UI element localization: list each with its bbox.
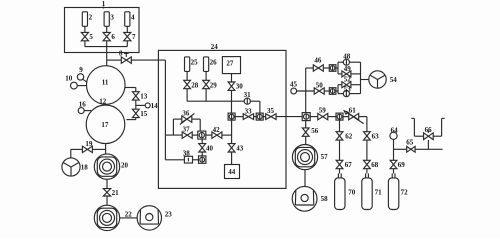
filter 60 bbox=[336, 113, 343, 120]
valve 33 bbox=[243, 114, 248, 120]
valve 8 with stem bbox=[121, 57, 126, 63]
wire filter 60 to valve 61 bbox=[343, 116, 349, 118]
vessel 54 (ball) bbox=[369, 71, 386, 88]
wire valve 50 to filter 51 bbox=[324, 90, 329, 92]
svg-text:71: 71 bbox=[375, 188, 383, 196]
wire filter 47 tee bbox=[336, 62, 338, 74]
wire valve 68 to cylinder 71 bbox=[366, 169, 368, 174]
wire valve 8 into box 24 bbox=[131, 60, 165, 135]
svg-text:36: 36 bbox=[182, 109, 190, 117]
wire tank 27 to valve 30 bbox=[231, 74, 233, 82]
valve 68 bbox=[364, 160, 371, 164]
svg-text:72: 72 bbox=[401, 188, 409, 196]
svg-text:22: 22 bbox=[125, 211, 133, 219]
valve 13 bbox=[132, 92, 139, 96]
bypass wire valve 36 to filter 41 bbox=[192, 119, 200, 131]
valve 62 bbox=[336, 132, 343, 136]
wire valve 30 down to filter 32 bbox=[231, 90, 233, 113]
wire tank 17 down to pump 20 bbox=[105, 144, 107, 154]
gauge 31 bbox=[244, 98, 250, 104]
cylinder 26 bbox=[204, 57, 209, 72]
enclosure box 1 (gas supply cabinet) bbox=[65, 8, 140, 53]
wire branch to gauge 48 bbox=[338, 61, 343, 63]
svg-text:27: 27 bbox=[226, 60, 234, 68]
box 44 bbox=[225, 165, 240, 179]
svg-text:50: 50 bbox=[316, 81, 324, 89]
svg-text:14: 14 bbox=[151, 102, 159, 110]
valve 19 bbox=[82, 146, 87, 152]
svg-text:70: 70 bbox=[348, 188, 356, 196]
filter 55 bbox=[302, 113, 310, 121]
svg-text:35: 35 bbox=[267, 107, 275, 115]
valve 50 bbox=[314, 88, 319, 94]
valve 65 bbox=[407, 146, 411, 152]
svg-text:9: 9 bbox=[79, 66, 83, 74]
wire filter 34 to valve 35 bbox=[263, 116, 266, 118]
wire gauge 45 to valve 50 bbox=[297, 90, 315, 92]
wire valve 56 to pump 57 bbox=[305, 136, 307, 144]
manifold wire valves 28/29 to node bbox=[187, 89, 244, 102]
wire valve 59 to filter 60 bbox=[328, 116, 336, 118]
cylinder 2 bbox=[82, 12, 87, 26]
wire pump 57 to pump 58 bbox=[304, 170, 306, 187]
svg-text:63: 63 bbox=[372, 132, 380, 140]
funnel vessel above valve 66 bbox=[413, 118, 415, 136]
riser wire from filter 55 to valve 46 line bbox=[306, 68, 314, 113]
valve 21 bbox=[103, 189, 110, 193]
wire stub to gauge 14 bbox=[136, 104, 146, 106]
wire pump 20 to valve 21 bbox=[106, 179, 108, 188]
wire cylinder 25 to valve 28 bbox=[186, 71, 188, 80]
svg-text:53: 53 bbox=[344, 85, 352, 93]
bypass wire to valve 36 bbox=[173, 119, 181, 135]
wire valve 21 to pump 22 bbox=[106, 196, 108, 205]
svg-text:29: 29 bbox=[210, 81, 218, 89]
valve 29 bbox=[203, 80, 210, 84]
svg-text:68: 68 bbox=[371, 161, 379, 169]
svg-text:37: 37 bbox=[183, 126, 191, 134]
svg-text:58: 58 bbox=[321, 195, 329, 203]
valve 52 bbox=[342, 82, 347, 88]
wire valve 61 elbow down bbox=[359, 117, 367, 132]
valve 42 bbox=[212, 132, 217, 138]
svg-text:57: 57 bbox=[321, 153, 329, 161]
svg-text:15: 15 bbox=[140, 110, 148, 118]
svg-text:17: 17 bbox=[101, 121, 109, 129]
wire filter 55 down to valve 56 bbox=[305, 121, 307, 128]
wire down to filter 38 bbox=[165, 135, 184, 160]
main drop wire from box 1 to tank 11 bbox=[106, 41, 108, 66]
wire valve 52 to manifold bbox=[351, 84, 361, 86]
wire filter 55 to valve 59 bbox=[310, 116, 317, 118]
wire gauge 9 to tank 11 bbox=[83, 79, 88, 82]
wire gauge 48 to manifold bbox=[350, 61, 361, 63]
wire branch to valve 62 bbox=[339, 119, 341, 132]
wire valve 33 to filter 34 bbox=[254, 116, 257, 118]
valve 5 bbox=[81, 32, 88, 36]
pump 23 bbox=[137, 206, 161, 230]
wire filter 51 tee bbox=[336, 85, 338, 94]
wire gauge 16 to tank 17 bbox=[84, 110, 91, 112]
valve 69 bbox=[390, 160, 397, 164]
svg-text:69: 69 bbox=[398, 161, 406, 169]
svg-text:20: 20 bbox=[121, 162, 129, 170]
svg-text:4: 4 bbox=[131, 14, 135, 22]
vessel 18 (ball) bbox=[62, 158, 80, 176]
valve 46 bbox=[313, 65, 318, 71]
valve 59 bbox=[318, 113, 323, 119]
valve 56 bbox=[302, 128, 309, 132]
wire branch to valve 49 bbox=[338, 73, 342, 75]
svg-text:16: 16 bbox=[79, 101, 87, 109]
filter 51 bbox=[329, 88, 336, 95]
svg-text:59: 59 bbox=[319, 107, 327, 115]
svg-text:13: 13 bbox=[140, 92, 148, 100]
wire gauge 53 to manifold bbox=[350, 93, 361, 95]
wire valve 49 to manifold bbox=[351, 73, 361, 75]
wire valve 62 to valve 67 bbox=[339, 140, 341, 160]
wire cylinder 4 to valve 7 bbox=[126, 26, 128, 32]
wire gauge 31 to filter 34 bbox=[250, 101, 260, 113]
gauge 9 bbox=[77, 74, 83, 80]
svg-text:67: 67 bbox=[345, 161, 353, 169]
wire valve 63 to valve 68 bbox=[366, 140, 368, 160]
wire valve 13 to valve 15 bbox=[135, 100, 137, 109]
wire into valve 37 bbox=[165, 134, 182, 136]
svg-text:10: 10 bbox=[65, 75, 73, 83]
svg-text:31: 31 bbox=[244, 91, 252, 99]
wire gauge 64 down through node to valve 69 bbox=[393, 139, 395, 160]
filter 39 bbox=[199, 156, 206, 163]
svg-text:6: 6 bbox=[111, 33, 115, 41]
wire filter 38 to filter 39 bbox=[193, 159, 199, 161]
valve 40 bbox=[199, 144, 206, 148]
wire pump 22 to pump 23 bbox=[120, 217, 138, 219]
wire branch to valve 19 bbox=[92, 148, 105, 150]
svg-text:64: 64 bbox=[391, 127, 399, 135]
svg-text:49: 49 bbox=[344, 65, 352, 73]
gauge 10 bbox=[71, 82, 78, 89]
wire node to valve 43 bbox=[231, 120, 233, 144]
manifold wire to ball 54 bbox=[361, 62, 369, 93]
wire tank 11 to valve 13 bbox=[125, 88, 136, 92]
wire filter 32 to valve 33 bbox=[235, 116, 243, 118]
gauge 53 bbox=[343, 91, 349, 97]
wire node to valve 65 bbox=[394, 148, 407, 150]
svg-text:8: 8 bbox=[119, 50, 123, 58]
svg-text:54: 54 bbox=[390, 76, 398, 84]
gas cylinder 72 bbox=[388, 178, 398, 210]
svg-text:12: 12 bbox=[99, 97, 107, 105]
wire valve 65 line with tee to funnel 66 bbox=[415, 140, 443, 149]
valve 35 bbox=[266, 114, 271, 120]
wire valve 15 to tank 17 bbox=[126, 118, 135, 120]
svg-text:52: 52 bbox=[344, 76, 352, 84]
gauge 14 bbox=[145, 103, 150, 108]
valve 66 with stem bbox=[424, 133, 429, 140]
svg-text:43: 43 bbox=[236, 144, 244, 152]
gauge 48 bbox=[343, 59, 349, 65]
svg-text:33: 33 bbox=[245, 107, 253, 115]
valve 63 bbox=[364, 132, 371, 136]
filter 38 bbox=[184, 156, 192, 163]
svg-text:19: 19 bbox=[85, 140, 93, 148]
svg-text:66: 66 bbox=[425, 126, 433, 134]
valve 28 bbox=[184, 80, 191, 84]
wire valve 35 out of box to filter 55 bbox=[276, 116, 302, 118]
pump 57 bbox=[292, 145, 317, 170]
filter 32 bbox=[228, 113, 235, 120]
pump 58 bbox=[292, 186, 317, 211]
svg-text:24: 24 bbox=[211, 43, 219, 51]
svg-text:30: 30 bbox=[236, 83, 244, 91]
svg-text:11: 11 bbox=[102, 79, 109, 87]
svg-text:42: 42 bbox=[213, 126, 221, 134]
svg-text:2: 2 bbox=[89, 14, 93, 22]
svg-text:18: 18 bbox=[81, 163, 89, 171]
svg-text:61: 61 bbox=[349, 106, 357, 114]
wire valve 43 to box 44 bbox=[231, 152, 233, 165]
svg-text:21: 21 bbox=[112, 189, 120, 197]
wire tank line to valve 8 bbox=[107, 59, 122, 61]
wire valve 67 to cylinder 70 bbox=[339, 169, 341, 174]
valve 30 bbox=[228, 82, 235, 86]
manifold wire below valves 5-7 bbox=[85, 41, 127, 47]
wire filter 41 to valve 42 bbox=[206, 134, 212, 136]
svg-text:5: 5 bbox=[89, 33, 93, 41]
valve 15 bbox=[132, 109, 139, 113]
gas cylinder 71 bbox=[362, 178, 372, 210]
tank 27 (box) bbox=[222, 57, 240, 74]
wire cylinder 3 to valve 6 bbox=[106, 26, 108, 32]
valve 67 bbox=[336, 160, 343, 164]
valve 7 bbox=[124, 32, 131, 36]
valve 43 bbox=[228, 144, 235, 148]
wire node 12 between tanks bbox=[105, 103, 107, 106]
wire branch to gauge 53 bbox=[338, 93, 343, 95]
valve 6 bbox=[103, 32, 110, 36]
wire valve 19 to ball 18 bbox=[71, 149, 83, 158]
svg-text:46: 46 bbox=[314, 57, 322, 65]
tank 11 (sphere) bbox=[87, 66, 126, 105]
wire cylinder 26 to valve 29 bbox=[205, 71, 207, 80]
svg-text:25: 25 bbox=[191, 59, 199, 67]
svg-text:7: 7 bbox=[132, 33, 136, 41]
wire valve 37 to filter 41 bbox=[192, 134, 198, 136]
gauge 16 bbox=[78, 108, 84, 114]
filter 34 bbox=[256, 113, 263, 120]
pump 20 bbox=[94, 154, 119, 179]
wire cylinder 2 to valve 5 bbox=[84, 26, 86, 32]
wire gauge 10 to tank 11 bbox=[77, 85, 87, 87]
tank 17 (sphere) bbox=[86, 105, 125, 144]
wire valve 42 to node bbox=[222, 134, 232, 136]
svg-text:65: 65 bbox=[406, 139, 414, 147]
cylinder 3 bbox=[104, 12, 109, 26]
gauge 45 bbox=[291, 88, 297, 94]
wire valve 46 to filter 47 bbox=[323, 67, 329, 69]
svg-text:44: 44 bbox=[228, 168, 236, 176]
svg-text:3: 3 bbox=[110, 14, 114, 22]
svg-text:56: 56 bbox=[311, 127, 319, 135]
svg-text:62: 62 bbox=[345, 132, 353, 140]
valve 37 bbox=[182, 132, 187, 138]
svg-text:48: 48 bbox=[343, 53, 351, 61]
cylinder 4 bbox=[125, 12, 130, 26]
cylinder 25 bbox=[185, 57, 190, 72]
svg-text:28: 28 bbox=[191, 81, 199, 89]
wire branch to valve 52 bbox=[338, 84, 342, 86]
svg-text:38: 38 bbox=[183, 150, 191, 158]
filter 41 bbox=[198, 131, 206, 139]
wire valve 69 to cylinder 72 bbox=[393, 169, 395, 174]
svg-text:45: 45 bbox=[290, 81, 298, 89]
gauge 64 bbox=[390, 132, 397, 139]
svg-text:23: 23 bbox=[165, 211, 173, 219]
pump 22 bbox=[94, 205, 119, 230]
enclosure box 24 (control panel) bbox=[158, 50, 286, 188]
svg-text:26: 26 bbox=[210, 59, 218, 67]
filter 47 bbox=[329, 65, 336, 72]
gas cylinder 70 bbox=[335, 178, 345, 210]
valve 36 with slash bbox=[182, 116, 187, 122]
svg-text:40: 40 bbox=[206, 144, 214, 152]
valve 49 bbox=[342, 71, 347, 77]
wire filter 39 up to valve 40 bbox=[201, 139, 203, 156]
valve 61 (regulating, diagonal arrow) bbox=[349, 113, 354, 119]
